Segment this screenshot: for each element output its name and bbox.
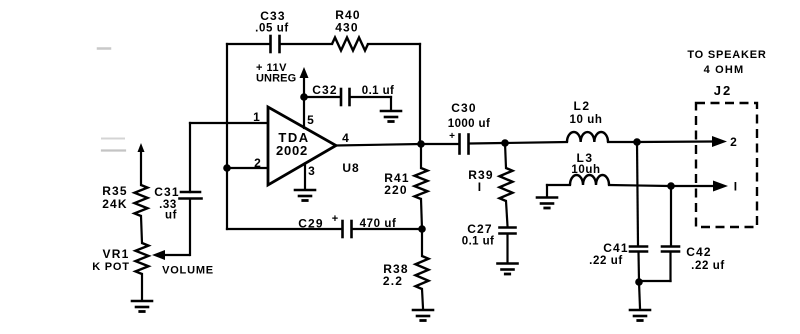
- svg-text:4: 4: [342, 131, 350, 145]
- svg-text:C27: C27: [467, 222, 493, 236]
- svg-text:C31: C31: [154, 185, 180, 199]
- wire: [141, 216, 142, 243]
- wire: [637, 252, 640, 281]
- wire: [421, 199, 422, 229]
- arrow to J2 pin 2: [712, 135, 738, 149]
- wire pin5: [303, 97, 305, 128]
- wire: [421, 229, 423, 256]
- capacitor C41: [589, 241, 647, 267]
- node output junction: [417, 140, 425, 148]
- wire: [353, 228, 418, 230]
- resistor R35: [102, 184, 147, 216]
- wire: [639, 252, 671, 281]
- svg-text:VOLUME: VOLUME: [162, 265, 214, 277]
- wire: [226, 172, 228, 229]
- resistor R39: [468, 168, 512, 201]
- wire: [227, 228, 341, 230]
- wire: [639, 282, 640, 308]
- wire pin3: [304, 164, 306, 190]
- ground: [630, 310, 650, 321]
- node L3 output junction: [667, 182, 675, 190]
- capacitor C42: [662, 245, 725, 272]
- wire: [505, 143, 506, 168]
- svg-text:4 OHM: 4 OHM: [704, 64, 745, 76]
- capacitor C29: [298, 213, 396, 237]
- svg-text:C32: C32: [312, 83, 338, 97]
- node C41/C42 junction: [635, 278, 643, 286]
- svg-text:UNREG: UNREG: [256, 73, 296, 85]
- ground: [498, 264, 518, 275]
- svg-text:C41: C41: [603, 241, 629, 255]
- svg-text:+: +: [449, 131, 455, 142]
- wire: [304, 96, 340, 98]
- svg-text:I: I: [478, 180, 483, 194]
- svg-text:R35: R35: [102, 184, 128, 198]
- wire: [141, 274, 143, 300]
- ground: [295, 190, 315, 201]
- svg-text:VR1: VR1: [103, 247, 130, 261]
- svg-text:L2: L2: [573, 99, 590, 113]
- svg-text:C29: C29: [298, 217, 324, 231]
- wire pin4 output: [336, 144, 420, 146]
- svg-text:L3: L3: [576, 151, 593, 165]
- svg-text:5: 5: [307, 113, 315, 127]
- arrow to J2 pin 1: [713, 180, 738, 194]
- node input terminal arrow: [138, 143, 145, 152]
- node L2 output junction: [633, 138, 641, 146]
- svg-text:TO SPEAKER: TO SPEAKER: [687, 49, 766, 61]
- svg-text:.05 uf: .05 uf: [255, 23, 289, 35]
- capacitor C27: [462, 222, 516, 248]
- svg-text:3: 3: [308, 164, 316, 178]
- node pin5 supply junction: [300, 93, 308, 101]
- potentiometer VR1: [92, 243, 148, 274]
- resistor R40: [332, 8, 368, 51]
- wire: [609, 185, 668, 186]
- inductor L2: [567, 99, 608, 142]
- svg-text:C30: C30: [451, 101, 477, 115]
- capacitor C33: [255, 9, 289, 52]
- wire: [608, 141, 634, 143]
- wire: [637, 140, 712, 143]
- op-amp U1 TDA2002: [253, 107, 360, 185]
- svg-text:2: 2: [254, 156, 262, 170]
- ground: [537, 198, 557, 209]
- resistor R38: [383, 256, 429, 289]
- wire: [505, 142, 567, 143]
- svg-text:430: 430: [335, 21, 359, 35]
- wire: [421, 143, 458, 145]
- wire: [98, 49, 125, 151]
- wire: [140, 150, 142, 185]
- svg-text:2002: 2002: [276, 143, 308, 158]
- wire: [226, 44, 228, 164]
- svg-text:10uh: 10uh: [571, 164, 600, 176]
- svg-text:uf: uf: [165, 210, 177, 222]
- wire: [470, 142, 502, 145]
- svg-text:J2: J2: [714, 83, 732, 98]
- svg-text:220: 220: [384, 183, 408, 197]
- svg-text:24K: 24K: [102, 197, 128, 211]
- wire: [189, 123, 191, 192]
- wire pin2: [227, 167, 268, 169]
- svg-text:.22 uf: .22 uf: [589, 255, 623, 267]
- svg-text:10 uh: 10 uh: [569, 114, 602, 126]
- svg-text:C33: C33: [260, 9, 286, 23]
- node C30/R39 junction: [501, 139, 509, 147]
- wire: [419, 44, 421, 140]
- svg-text:+: +: [332, 213, 338, 225]
- svg-text:C42: C42: [686, 245, 712, 259]
- svg-text:U8: U8: [342, 161, 359, 175]
- svg-text:1000 uf: 1000 uf: [448, 118, 490, 130]
- ground: [381, 111, 401, 122]
- wire: [422, 289, 423, 308]
- node R41/R38/C29 junction: [418, 225, 426, 233]
- svg-text:2.2: 2.2: [383, 274, 403, 288]
- wire: [670, 186, 672, 245]
- label TO SPEAKER 4 OHM: [687, 49, 766, 76]
- capacitor C30: [448, 101, 490, 154]
- ground: [413, 310, 433, 321]
- resistor R41: [384, 168, 427, 199]
- capacitor C31: [154, 185, 201, 222]
- wire: [547, 185, 570, 196]
- svg-text:I: I: [734, 180, 739, 194]
- connector J2 dashed box: [696, 83, 757, 227]
- wire: [506, 235, 508, 263]
- capacitor C32: [312, 83, 394, 105]
- svg-text:K POT: K POT: [92, 261, 130, 273]
- ground: [132, 301, 152, 312]
- wire: [351, 97, 392, 110]
- power +11V UNREG: [256, 62, 309, 97]
- wire: [637, 142, 638, 245]
- node pin2 junction: [223, 164, 231, 172]
- wire: [506, 201, 508, 226]
- wire: [227, 43, 420, 45]
- wire pin1: [190, 122, 268, 124]
- svg-text:2: 2: [730, 135, 738, 149]
- wire: [420, 144, 422, 168]
- wiper arrow VOLUME: [152, 250, 214, 277]
- svg-text:1: 1: [253, 110, 261, 124]
- svg-text:0.1 uf: 0.1 uf: [462, 236, 494, 248]
- inductor L3: [570, 151, 609, 185]
- svg-text:0.1 uf: 0.1 uf: [362, 85, 394, 97]
- wire: [189, 199, 191, 255]
- wire: [671, 185, 713, 187]
- svg-text:.22 uf: .22 uf: [691, 260, 725, 272]
